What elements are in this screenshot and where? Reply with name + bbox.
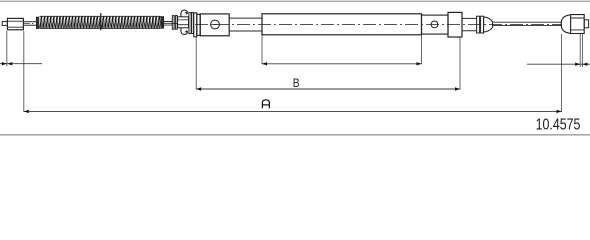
end block <box>448 12 462 37</box>
clip bottom prong <box>181 28 187 35</box>
tube after end block <box>462 18 477 30</box>
firewall clip body <box>178 17 189 28</box>
extension line x23.8 <box>23 31 25 112</box>
hole slot <box>213 24 217 26</box>
left barrel fitting <box>7 18 23 29</box>
tube between cylinder and sleeve <box>229 18 262 31</box>
extension line x196.2 <box>195 37 197 89</box>
cylinder collar <box>197 14 200 35</box>
extension line x421.5 <box>421 36 423 65</box>
adjuster body <box>422 15 449 34</box>
extension line x6.8 <box>6 31 8 66</box>
cylinder body <box>200 14 229 36</box>
spool washer 2 <box>175 16 177 30</box>
left rod <box>23 22 36 25</box>
ring 1 <box>477 16 480 33</box>
spring end block <box>161 16 165 28</box>
right bell mouth <box>561 15 570 34</box>
ring 2 <box>481 16 484 33</box>
extension line x262 <box>261 36 263 65</box>
small left dimension <box>0 62 42 65</box>
cone <box>484 17 493 32</box>
outer sleeve <box>262 14 422 35</box>
small right dimension <box>527 63 590 66</box>
right button <box>584 20 588 28</box>
dimension line A <box>24 110 562 113</box>
cable stub left end <box>2 22 7 26</box>
label A <box>262 100 269 108</box>
right barrel <box>571 15 585 34</box>
inner cable between fittings <box>164 22 178 26</box>
svg-text:B: B <box>293 76 300 90</box>
spool washer 1 <box>172 16 174 30</box>
dimension line B <box>196 87 460 90</box>
adjuster hole <box>431 21 438 28</box>
extension lines x580.5 x582.8 <box>580 34 582 67</box>
clip plate 2 <box>192 13 194 34</box>
centerline <box>195 23 562 25</box>
left end plate of conduit <box>36 17 39 29</box>
centerline left rod <box>24 22 35 24</box>
cylinder hole <box>211 20 220 29</box>
frame top border <box>0 1 590 2</box>
conduit joint mark <box>100 13 102 30</box>
cylinder flange <box>194 13 197 37</box>
svg-text:10.4575: 10.4575 <box>536 117 581 134</box>
extension line x460 <box>459 37 461 89</box>
clip plate 1 <box>189 13 191 34</box>
inner dimension line <box>262 62 422 65</box>
cable right <box>493 22 562 25</box>
frame bottom border <box>0 134 590 136</box>
extension line x561.5 <box>561 34 563 112</box>
spiral conduit sheath <box>40 16 161 29</box>
clip top prong <box>181 10 187 17</box>
